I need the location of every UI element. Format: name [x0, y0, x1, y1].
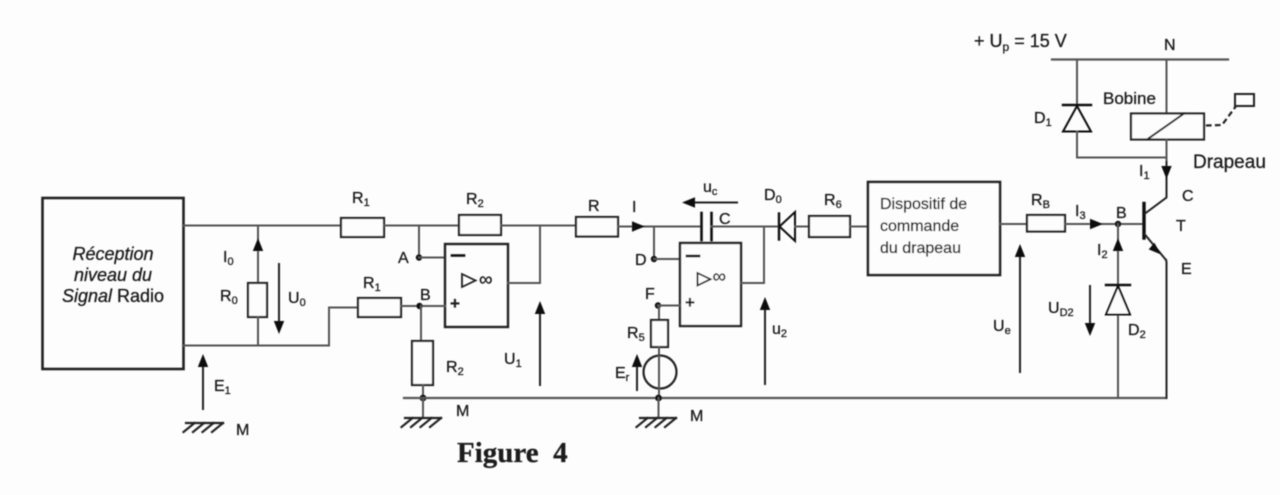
arrow E1 [198, 354, 231, 409]
svg-text:niveau du: niveau du [74, 265, 152, 285]
svg-text:R2: R2 [466, 191, 484, 210]
node A [398, 250, 422, 267]
svg-text:I0: I0 [223, 249, 234, 268]
arrow I1 [1139, 163, 1172, 182]
resistor R0 (vertical) [220, 226, 267, 346]
arrow I3 [1075, 203, 1103, 229]
node N [1164, 37, 1176, 54]
svg-text:A: A [398, 250, 409, 267]
transistor T emitter line with arrow [1145, 234, 1167, 398]
svg-text:+ Up = 15 V: + Up = 15 V [974, 31, 1067, 54]
svg-text:Drapeau: Drapeau [1193, 152, 1266, 173]
source Er [615, 356, 677, 389]
wire top output of block to R1 [183, 225, 341, 227]
node B (base junction) [1115, 205, 1127, 227]
wire node D to op-amp U2 inverting input [654, 258, 680, 260]
wire R2 to R with junction of op-amp output [501, 225, 576, 227]
svg-text:D2: D2 [1128, 322, 1146, 341]
svg-text:commande: commande [880, 218, 959, 235]
arrow Er [632, 354, 642, 390]
wire R to capacitor with current arrow I [618, 226, 702, 228]
svg-text:M: M [690, 408, 703, 425]
wire op-amp U2 output [741, 282, 764, 284]
svg-text:R1: R1 [363, 275, 381, 294]
node junction Er / rail [655, 395, 662, 402]
svg-text:E: E [1181, 261, 1192, 278]
svg-text:R6: R6 [824, 192, 842, 211]
wire capacitor to diode D0 [712, 226, 780, 228]
wire node B down to R2 [420, 306, 422, 341]
wire R1 lower to node B [401, 305, 445, 307]
wire D0 to R6 [795, 226, 809, 228]
svg-text:R0: R0 [220, 288, 238, 307]
wire coil to collector [1166, 140, 1168, 161]
wire N down to relay coil [1166, 60, 1168, 114]
svg-text:I: I [632, 199, 636, 216]
svg-text:R2: R2 [446, 359, 464, 378]
svg-text:I2: I2 [1097, 242, 1108, 261]
resistor R [576, 198, 618, 237]
ground M (reference, left) [184, 422, 250, 439]
op-amp U1 [445, 244, 508, 327]
resistor R5 (vertical) [627, 320, 668, 347]
ground M (under Er) [637, 398, 704, 427]
transistor T base bar [1142, 204, 1145, 239]
resistor R2 (feedback) [459, 191, 501, 235]
arrow Ue [993, 244, 1025, 372]
svg-text:uc: uc [703, 179, 718, 198]
arrow U1 [504, 301, 545, 385]
svg-text:C: C [1182, 188, 1194, 205]
wire op-amp U2 output riser [763, 227, 765, 284]
svg-text:N: N [1164, 37, 1176, 54]
wire op-amp U1 output riser [539, 226, 541, 284]
svg-text:I1: I1 [1139, 163, 1150, 182]
figure caption [457, 437, 568, 469]
block Dispositif de commande du drapeau [868, 182, 1000, 275]
wire Er to rail [658, 388, 660, 398]
svg-text:R5: R5 [627, 325, 645, 344]
arrow UD2 [1048, 286, 1095, 336]
svg-text:D: D [635, 252, 647, 269]
svg-text:R1: R1 [352, 190, 370, 209]
node F [645, 286, 661, 309]
relay coil Bobine [1103, 89, 1204, 140]
arrow I2 [1097, 238, 1123, 261]
svg-text:RB: RB [1031, 192, 1050, 211]
wire rail down to diode D1 [1076, 60, 1078, 106]
resistor R1 (top) [341, 190, 384, 237]
arrow I [632, 199, 645, 232]
wire R6 to command block [850, 226, 868, 228]
svg-text:B: B [420, 287, 431, 304]
svg-text:D0: D0 [764, 187, 782, 206]
node B [416, 287, 430, 309]
svg-text:U0: U0 [288, 290, 306, 309]
svg-text:I3: I3 [1075, 203, 1086, 222]
svg-text:M: M [456, 403, 469, 420]
block Réception niveau du Signal Radio [43, 198, 184, 369]
wire node B down to rail through D2 [1117, 224, 1119, 398]
svg-text:E1: E1 [214, 378, 231, 397]
svg-text:∞: ∞ [479, 270, 493, 291]
power label +Up = 15 V [974, 31, 1067, 54]
wire node A to op-amp inverting input [419, 257, 445, 259]
wire op-amp U1 output [508, 282, 540, 284]
svg-text:Signal Radio: Signal Radio [62, 286, 164, 306]
capacitor C [702, 211, 731, 240]
svg-text:C: C [719, 211, 731, 228]
svg-text:Dispositif de: Dispositif de [880, 196, 967, 213]
svg-text:F: F [645, 286, 655, 303]
node junction R2 / rail [420, 395, 427, 402]
wire lower output of block [183, 308, 358, 346]
bottom ground rail [404, 397, 1166, 399]
wire junction down to node A [418, 226, 420, 258]
svg-text:UD2: UD2 [1048, 300, 1074, 319]
svg-text:Er: Er [615, 365, 630, 384]
svg-text:+: + [450, 294, 460, 313]
svg-text:∞: ∞ [713, 267, 727, 288]
ground M (under R2) [402, 398, 470, 427]
power rail +Up [1052, 58, 1228, 60]
svg-text:+: + [685, 293, 695, 312]
resistor R6 [809, 192, 850, 237]
wire R1 to R2 with junction above A [384, 225, 459, 227]
resistor R2 (lower, vertical) [412, 341, 464, 385]
wire junction down to node D [653, 227, 655, 260]
diode D0 [764, 187, 795, 241]
svg-text:u2: u2 [772, 321, 787, 340]
svg-text:Bobine: Bobine [1103, 89, 1156, 108]
wire F down to R5 [658, 306, 660, 321]
wire node F to op-amp U2 plus input [658, 305, 680, 307]
svg-text:U1: U1 [504, 351, 522, 370]
diode D2 [1106, 285, 1146, 341]
relay contact Drapeau [1193, 94, 1266, 173]
arrow I0 [223, 238, 263, 268]
node D [635, 252, 657, 269]
svg-text:B: B [1116, 205, 1127, 222]
svg-text:Figure 4: Figure 4 [457, 437, 568, 469]
resistor RB [1027, 192, 1065, 232]
svg-text:T: T [1176, 218, 1186, 235]
transistor T collector line [1145, 140, 1167, 214]
wire R2 bottom to ground rail [422, 385, 424, 398]
svg-text:Ue: Ue [993, 318, 1011, 337]
arrow uc [682, 179, 737, 208]
resistor R1 (lower) [358, 275, 401, 317]
diode D1 [1034, 105, 1091, 158]
transistor labels C T E [1176, 188, 1194, 278]
arrow u2 [760, 297, 787, 384]
svg-text:M: M [236, 422, 249, 439]
wire D1 return to coil output [1077, 157, 1167, 159]
svg-text:Réception: Réception [72, 244, 153, 264]
arrow U0 [274, 264, 306, 334]
wire R5 to source Er [658, 347, 660, 356]
svg-text:R: R [588, 198, 600, 215]
svg-text:du drapeau: du drapeau [880, 240, 961, 257]
op-amp U2 [680, 243, 741, 326]
wire command block to RB [1000, 223, 1026, 225]
svg-text:D1: D1 [1034, 110, 1052, 129]
wire RB to base with arrow I3 [1065, 223, 1143, 225]
